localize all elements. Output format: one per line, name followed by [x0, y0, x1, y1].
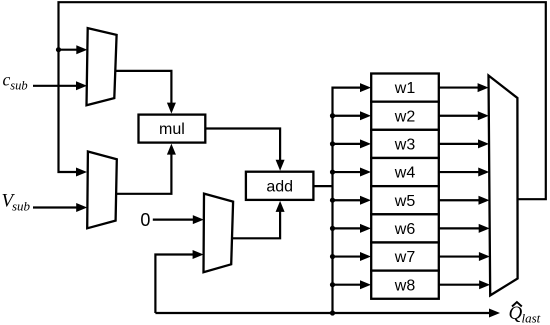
wire: bus branch to register w3 — [330, 139, 371, 148]
wire: add output to register write bus — [313, 185, 332, 187]
register w4 — [371, 158, 439, 186]
output wire Q_last — [155, 309, 500, 318]
svg-text:w6: w6 — [394, 221, 416, 238]
feedback wire (mux U4 output, right side, top, left side, into mux U1/U2) — [59, 2, 546, 199]
wire: register w6 output to mux U4 — [439, 224, 490, 233]
wire: bus branch to register w7 — [330, 252, 371, 261]
junction dot (bottom feedback line and bus) — [330, 310, 335, 315]
mux U2 — [87, 152, 117, 229]
register w5 — [371, 186, 439, 214]
register w7 — [371, 242, 439, 270]
register w3 — [371, 130, 439, 158]
wire: 0 to mux U3 upper input — [153, 215, 204, 224]
input label V_sub — [2, 191, 31, 214]
svg-text:w4: w4 — [394, 165, 416, 182]
svg-text:w5: w5 — [394, 193, 416, 210]
wire: register w7 output to mux U4 — [439, 252, 490, 261]
wire: bus branch to register w8 — [330, 280, 371, 289]
svg-text:mul: mul — [159, 121, 185, 138]
svg-text:sub: sub — [12, 199, 31, 214]
wire: register w5 output to mux U4 — [439, 196, 490, 205]
svg-text:w1: w1 — [394, 80, 416, 97]
wire: bus branch to register w4 — [330, 168, 371, 177]
svg-text:last: last — [522, 310, 541, 325]
multiplier mul — [139, 115, 206, 143]
wire: bus branch to register w2 — [330, 111, 371, 120]
wire: V_sub to mux U2 lower input — [33, 203, 87, 212]
register w2 — [371, 102, 439, 130]
wire: mux U1 output to mul top — [115, 71, 176, 114]
wire: register w4 output to mux U4 — [439, 168, 489, 177]
wire: register w2 output to mux U4 — [439, 111, 489, 120]
wire: register w3 output to mux U4 — [439, 139, 489, 148]
wire: mul output to add top — [205, 129, 284, 171]
register write bus (vertical) — [331, 87, 333, 314]
wire: mux U3 output to add bottom — [232, 201, 285, 238]
register w8 — [371, 271, 439, 299]
junction dot (feedback split to mux U1) — [56, 47, 61, 52]
output label Q_last with hat — [509, 302, 541, 325]
register w6 — [371, 214, 439, 242]
mux U3 — [204, 194, 234, 273]
adder add — [246, 172, 314, 200]
wire: c_sub to mux U1 lower input — [33, 81, 87, 90]
svg-text:0: 0 — [140, 210, 150, 230]
wire: mux U2 output to mul bottom — [116, 144, 176, 194]
wire: register w1 output to mux U4 — [439, 83, 489, 92]
mux U4 (output selector) — [489, 76, 518, 296]
svg-text:add: add — [266, 179, 293, 196]
svg-text:w7: w7 — [394, 249, 416, 266]
wire: Q_last feedback riser to mux U3 lower input — [155, 250, 203, 313]
svg-text:w8: w8 — [394, 277, 416, 294]
mux U1 — [87, 28, 117, 105]
svg-text:sub: sub — [10, 79, 27, 93]
wire: bus branch to register w1 — [333, 83, 372, 92]
wire: bus branch to register w6 — [330, 224, 371, 233]
wire: bus branch to register w5 — [330, 196, 371, 205]
svg-text:c: c — [3, 70, 11, 90]
register w1 — [371, 74, 439, 102]
svg-text:w2: w2 — [394, 108, 416, 125]
svg-text:w3: w3 — [394, 137, 416, 154]
input label c_sub — [3, 70, 28, 93]
wire: register w8 output to mux U4 — [439, 280, 490, 289]
wire: feedback branch to mux U1 upper input — [59, 45, 88, 54]
